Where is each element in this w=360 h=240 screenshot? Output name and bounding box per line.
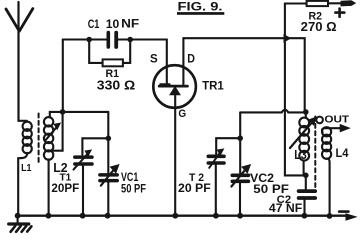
svg-text:TR1: TR1	[202, 80, 224, 92]
svg-text:D: D	[187, 54, 195, 66]
svg-text:47 NF: 47 NF	[269, 201, 302, 215]
svg-text:C1: C1	[88, 17, 100, 31]
svg-text:G: G	[178, 108, 186, 120]
svg-text:50 PF: 50 PF	[121, 182, 146, 196]
svg-text:OUT: OUT	[324, 113, 349, 125]
svg-text:L1: L1	[21, 162, 32, 174]
svg-text:20PF: 20PF	[51, 181, 79, 195]
svg-text:20 PF: 20 PF	[178, 181, 211, 195]
svg-text:L4: L4	[336, 146, 349, 160]
svg-text:L3: L3	[294, 148, 307, 162]
svg-text:330 Ω: 330 Ω	[97, 77, 136, 92]
svg-text:FIG. 9.: FIG. 9.	[178, 2, 223, 14]
svg-text:270 Ω: 270 Ω	[301, 19, 337, 34]
svg-text:S: S	[150, 54, 158, 66]
svg-text:NF: NF	[121, 17, 140, 31]
svg-text:10: 10	[106, 17, 120, 31]
